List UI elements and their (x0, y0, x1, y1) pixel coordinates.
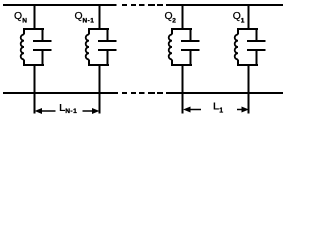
svg-text:L: L (213, 102, 219, 113)
svg-text:Q: Q (233, 11, 241, 22)
svg-text:1: 1 (219, 107, 223, 114)
svg-text:Q: Q (75, 11, 83, 22)
svg-text:1: 1 (73, 108, 77, 115)
svg-text:N: N (22, 17, 27, 24)
svg-text:1: 1 (90, 17, 94, 24)
svg-text:1: 1 (241, 17, 245, 24)
svg-text:Q: Q (14, 11, 22, 22)
svg-text:2: 2 (172, 17, 176, 24)
